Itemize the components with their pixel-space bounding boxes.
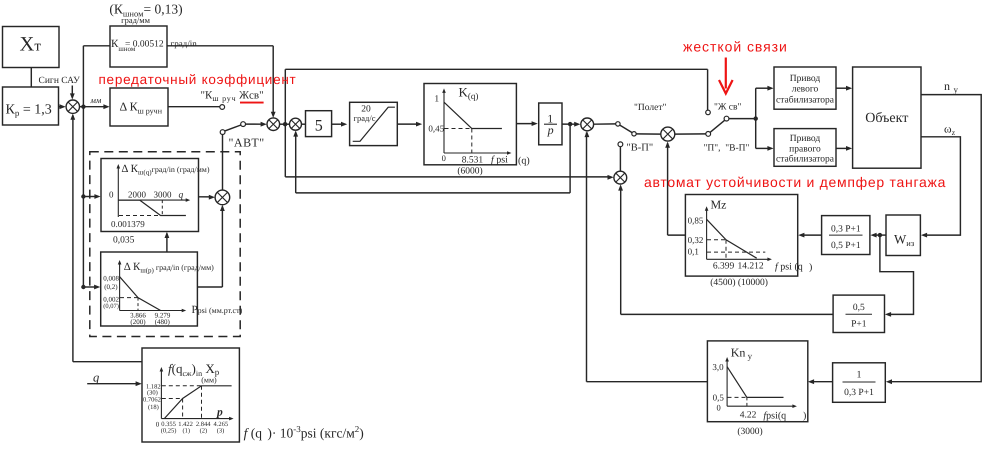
svg-text:f psi (q: f psi (q [775, 262, 803, 273]
svg-text:Ppsi (мм.рт.ст): Ppsi (мм.рт.ст) [192, 304, 243, 316]
svg-text:(2): (2) [200, 427, 208, 434]
svg-text:град/с: град/с [354, 113, 376, 123]
svg-text:"П", "В-П": "П", "В-П" [704, 144, 750, 154]
svg-text:0,45: 0,45 [428, 124, 444, 134]
svg-text:(мм): (мм) [201, 376, 217, 385]
svg-text:0,3 Р+1: 0,3 Р+1 [844, 388, 874, 398]
svg-text:n: n [944, 79, 950, 93]
svg-text:0: 0 [109, 190, 114, 200]
svg-text:0,5: 0,5 [853, 303, 865, 313]
svg-text:6.399: 6.399 [713, 262, 735, 272]
svg-text:"В-П": "В-П" [627, 143, 654, 154]
svg-text:стабилизатора: стабилизатора [776, 155, 835, 165]
svg-text:q: q [179, 191, 184, 201]
svg-text:0,85: 0,85 [688, 216, 704, 226]
svg-text:0,5 Р+1: 0,5 Р+1 [831, 241, 861, 251]
svg-text:0,035: 0,035 [113, 236, 135, 246]
svg-text:(18): (18) [148, 404, 159, 411]
svg-text:(3000): (3000) [737, 427, 762, 437]
svg-text:fpsi(q: fpsi(q [763, 411, 786, 422]
svg-text:жесткой связи: жесткой связи [683, 39, 788, 55]
svg-text:"Полет": "Полет" [634, 103, 666, 113]
svg-text:(4500) (10000): (4500) (10000) [710, 278, 768, 288]
svg-text:град/in: град/in [171, 39, 198, 49]
svg-text:правого: правого [789, 145, 821, 155]
svg-text:(0,2): (0,2) [104, 283, 118, 291]
svg-text:8.531: 8.531 [462, 156, 484, 166]
svg-text:Привод: Привод [790, 134, 821, 144]
svg-text:4.22: 4.22 [740, 411, 757, 421]
svg-text:y: y [954, 85, 959, 95]
svg-text:(30): (30) [147, 390, 158, 397]
svg-text:0.001379: 0.001379 [111, 219, 145, 229]
svg-text:(q): (q) [518, 156, 530, 167]
svg-text:град/мм: град/мм [121, 15, 151, 25]
svg-text:"Ж св": "Ж св" [714, 103, 741, 113]
svg-text:(6000): (6000) [457, 167, 482, 177]
svg-text:1: 1 [434, 95, 439, 105]
svg-text:0: 0 [442, 153, 446, 163]
svg-text:(3): (3) [217, 427, 225, 434]
svg-text:мм: мм [90, 95, 102, 105]
svg-text:5: 5 [315, 117, 323, 134]
svg-text:0,3 Р+1: 0,3 Р+1 [831, 225, 861, 235]
svg-text:3000: 3000 [154, 190, 173, 200]
svg-text:= 0.00512: = 0.00512 [125, 40, 164, 50]
svg-text:автомат устойчивости и демпфер: автомат устойчивости и демпфер тангажа [644, 174, 946, 190]
svg-text:0,008: 0,008 [103, 275, 119, 283]
svg-text:0,1: 0,1 [688, 247, 699, 257]
svg-text:0,32: 0,32 [688, 235, 704, 245]
svg-text:0.7062: 0.7062 [143, 397, 161, 404]
svg-text:0: 0 [156, 421, 160, 429]
svg-text:): ) [803, 411, 806, 422]
svg-text:(480): (480) [155, 318, 171, 326]
svg-text:"АВТ": "АВТ" [229, 136, 265, 150]
svg-text:(200): (200) [130, 318, 146, 326]
svg-text:14.212: 14.212 [737, 262, 763, 272]
svg-text:1: 1 [857, 370, 862, 381]
svg-text:2000: 2000 [128, 190, 147, 200]
svg-text:q: q [93, 371, 99, 385]
svg-text:Привод: Привод [790, 74, 821, 84]
svg-text:f psi: f psi [491, 155, 508, 166]
svg-text:0: 0 [716, 403, 720, 413]
svg-text:(0,07): (0,07) [103, 303, 119, 310]
svg-text:Mz: Mz [711, 198, 727, 212]
svg-text:Объект: Объект [865, 111, 908, 126]
svg-text:): ) [809, 262, 812, 273]
svg-text:(1): (1) [183, 427, 191, 434]
svg-text:Сигн САУ: Сигн САУ [39, 76, 81, 86]
svg-text:стабилизатора: стабилизатора [776, 96, 835, 106]
svg-text:левого: левого [792, 85, 819, 95]
svg-text:Р+1: Р+1 [851, 320, 867, 330]
svg-text:передаточный коэффициент: передаточный коэффициент [99, 72, 297, 87]
svg-text:f (q )· 10-3psi (кгс/м2): f (q )· 10-3psi (кгс/м2) [244, 424, 364, 441]
svg-text:p: p [547, 123, 554, 137]
svg-text:3,0: 3,0 [712, 362, 724, 372]
svg-text:0,5: 0,5 [713, 393, 725, 403]
svg-text:Кр = 1,3: Кр = 1,3 [6, 103, 52, 119]
svg-text:p: p [216, 407, 223, 419]
svg-text:(0,25): (0,25) [161, 427, 177, 434]
